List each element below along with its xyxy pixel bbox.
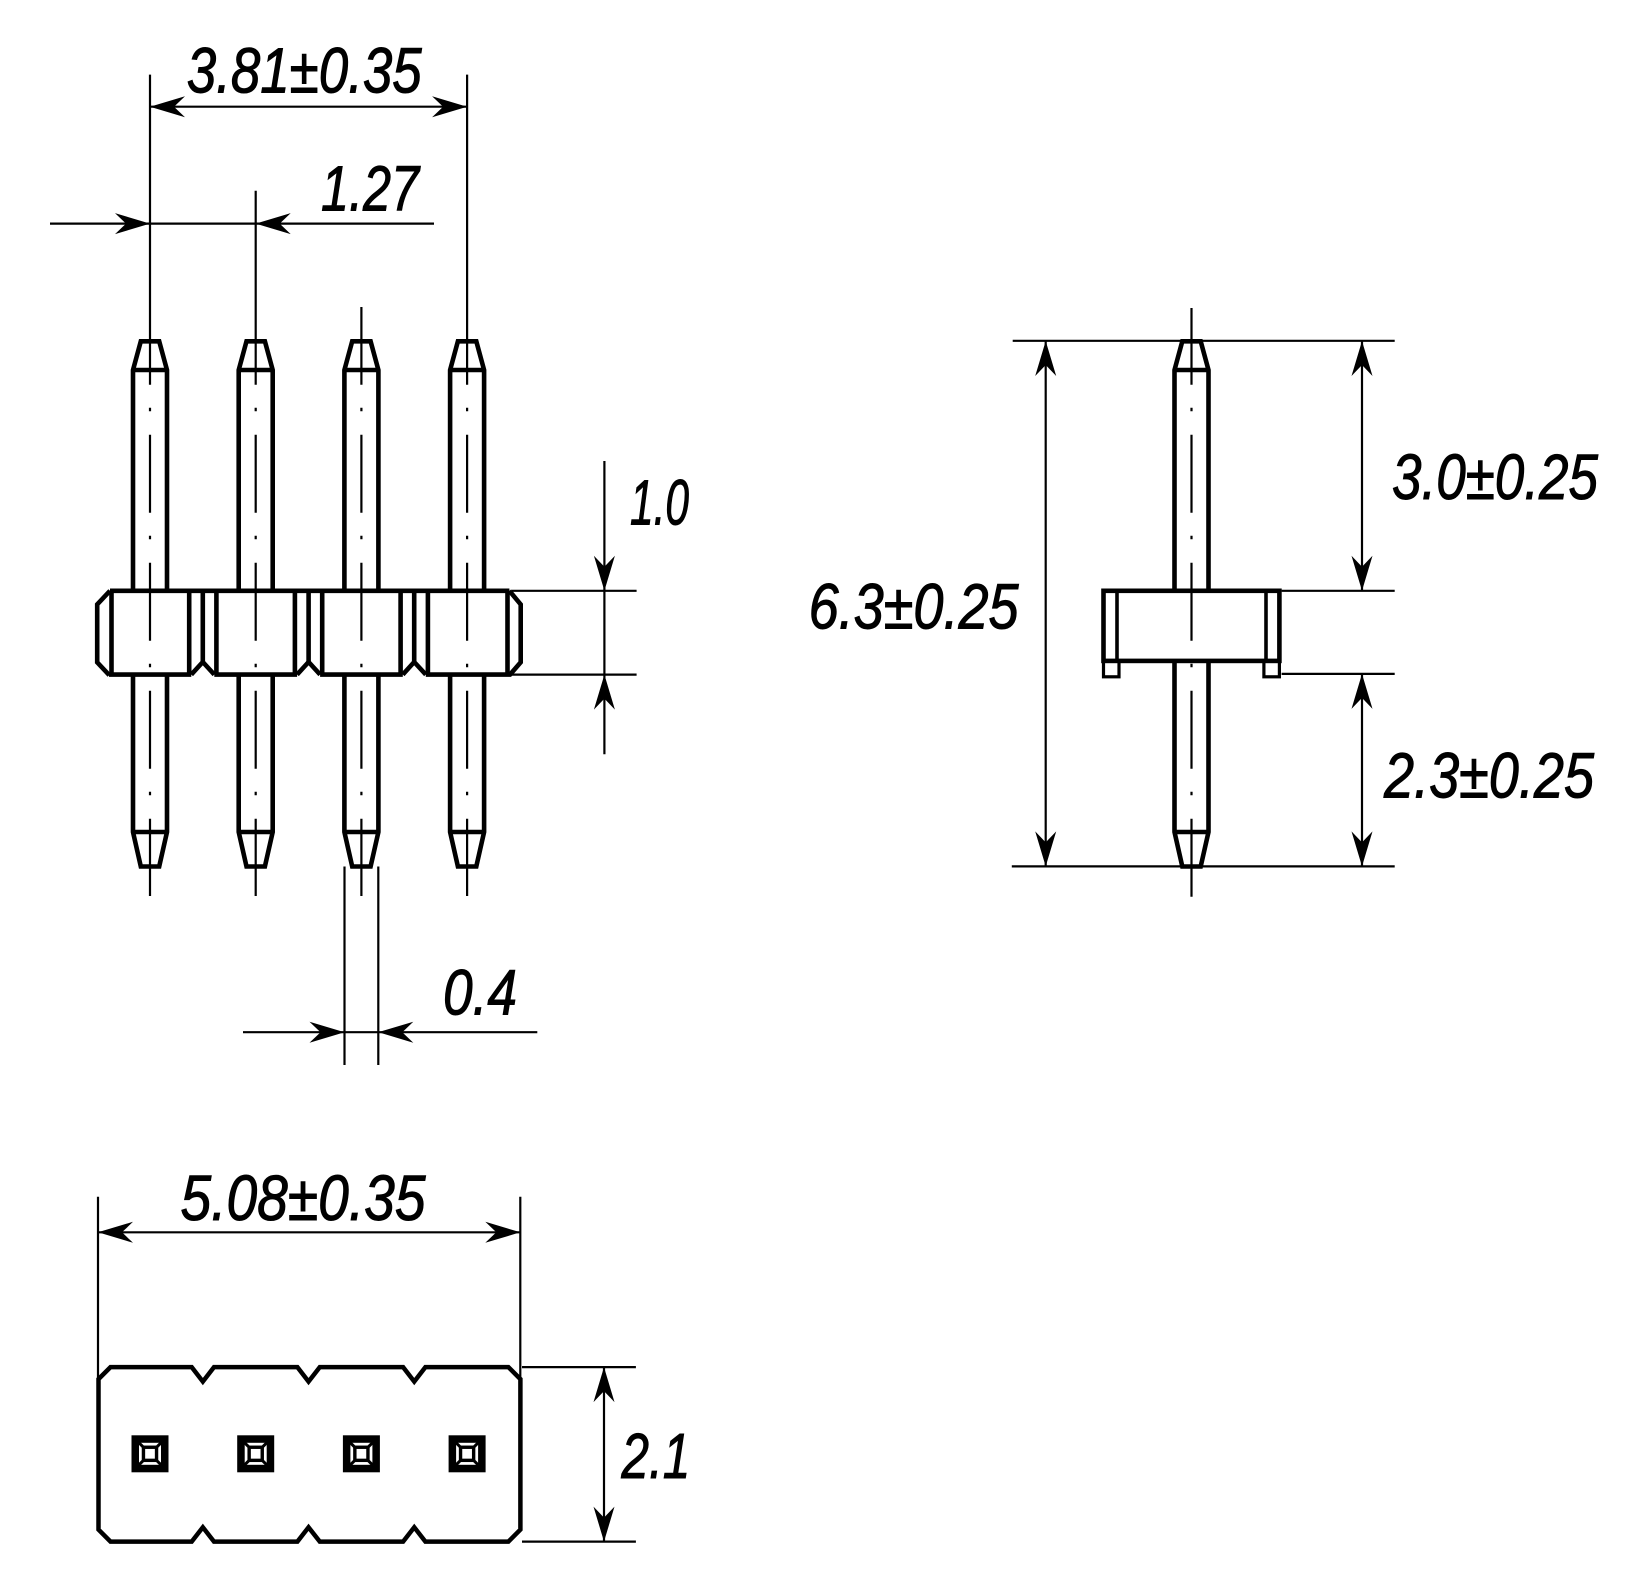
- dimension line 0.4: [243, 1031, 537, 1033]
- housing left wall inner edge: [1115, 591, 1119, 661]
- pin upper chamfer line (side view): [1175, 368, 1209, 373]
- svg-text:3.0±0.25: 3.0±0.25: [1392, 441, 1598, 513]
- dimension line 3.81±0.35: [150, 106, 467, 108]
- arrowhead pointing up: [594, 675, 615, 710]
- housing bottom edge segment: [426, 672, 511, 677]
- pin 2 lower chamfer line: [239, 830, 273, 835]
- arrowhead up: [594, 1367, 615, 1402]
- housing breakaway notch (front view): [403, 662, 426, 675]
- pin 4 lower chamfer line: [450, 830, 484, 835]
- arrowhead up: [1035, 341, 1056, 376]
- extension line overall bottom: [1012, 865, 1395, 867]
- svg-text:5.08±0.35: 5.08±0.35: [181, 1162, 426, 1234]
- housing outline (top view): [99, 1367, 521, 1542]
- extension lines 5.08: [97, 1197, 99, 1379]
- extension lines 2.1: [522, 1366, 636, 1368]
- arrowhead pointing right: [115, 213, 150, 234]
- pin 3 upper chamfer line: [344, 368, 378, 373]
- arrowhead up: [1352, 674, 1373, 709]
- housing bottom edge segment: [320, 672, 403, 677]
- housing left end chamfer: [97, 591, 110, 675]
- dimension line 1.27: [50, 223, 434, 225]
- arrowhead pointing left: [378, 1022, 413, 1043]
- housing left standoff foot: [1104, 661, 1120, 677]
- pin 1 centerline / extension line: [149, 75, 151, 384]
- housing junction chamfer edges: [293, 591, 298, 675]
- pin 4 square cross-section (top view): [452, 1439, 482, 1469]
- svg-text:1.0: 1.0: [630, 467, 689, 539]
- pin 2 upper body (front view): [239, 341, 273, 591]
- pin 1 lower body (front view): [133, 675, 167, 867]
- housing junction chamfer edges: [398, 591, 403, 675]
- dimension line 6.3±0.25: [1045, 341, 1047, 866]
- pin 1 upper body (front view): [133, 341, 167, 591]
- dimension line 1.0: [603, 461, 605, 754]
- housing right wall inner edge: [1264, 591, 1268, 661]
- housing left end inner edge: [109, 591, 114, 675]
- svg-text:3.81±0.35: 3.81±0.35: [187, 35, 422, 107]
- housing breakaway notch (front view): [297, 662, 320, 675]
- extension line housing top (side view): [1282, 590, 1395, 592]
- pin centerline (side view): [1190, 308, 1192, 384]
- housing junction chamfer edges: [187, 591, 192, 675]
- pin 2 square cross-section (top view): [241, 1439, 271, 1469]
- arrowhead down: [1352, 831, 1373, 866]
- arrowhead pointing left: [256, 213, 291, 234]
- dimension line 2.1: [603, 1367, 605, 1542]
- svg-text:0.4: 0.4: [443, 956, 517, 1028]
- housing junction parting line: [412, 591, 417, 662]
- pin 4 lower body (front view): [450, 675, 484, 867]
- arrowhead left: [150, 96, 185, 117]
- pin 3 centerline / extension line: [360, 307, 362, 384]
- housing junction parting line: [201, 591, 206, 662]
- svg-text:2.3±0.25: 2.3±0.25: [1383, 740, 1594, 812]
- extension line housing bottom (right): [512, 673, 637, 675]
- dimension line 5.08±0.35: [98, 1231, 520, 1233]
- pin 2 centerline / extension line: [255, 191, 257, 384]
- extension lines pin 3 width: [343, 867, 345, 1066]
- pin 1 lower chamfer line: [133, 830, 167, 835]
- arrowhead right: [432, 96, 467, 117]
- arrowhead left: [98, 1222, 133, 1243]
- pin 2 upper chamfer line: [239, 368, 273, 373]
- extension line housing top (right): [512, 590, 637, 592]
- pin 1 upper chamfer line: [133, 368, 167, 373]
- pin 1 square cross-section (top view): [135, 1439, 165, 1469]
- arrowhead up: [1352, 341, 1373, 376]
- arrowhead down: [1352, 556, 1373, 591]
- pin lower chamfer line (side view): [1175, 830, 1209, 835]
- pin lower body (side view): [1175, 661, 1209, 867]
- arrowhead down: [594, 1507, 615, 1542]
- pin 3 lower chamfer line: [344, 830, 378, 835]
- dimension line 3.0±0.25: [1361, 341, 1363, 591]
- pin 3 upper body (front view): [344, 341, 378, 591]
- arrowhead down: [1035, 831, 1056, 866]
- arrowhead right: [485, 1222, 520, 1243]
- housing right end inner edge: [505, 591, 510, 675]
- housing bottom edge segment: [109, 672, 191, 677]
- arrowhead pointing down: [594, 556, 615, 591]
- svg-text:1.27: 1.27: [321, 152, 421, 224]
- dimension line 2.3±0.25: [1361, 674, 1363, 867]
- pin 4 upper chamfer line: [450, 368, 484, 373]
- arrowhead pointing right: [310, 1022, 345, 1043]
- extension line overall top: [1013, 340, 1395, 342]
- pin 4 upper body (front view): [450, 341, 484, 591]
- pin 4 centerline / extension line: [466, 75, 468, 384]
- housing right standoff foot: [1264, 661, 1280, 677]
- housing right end chamfer: [509, 591, 520, 675]
- housing breakaway notch (front view): [191, 662, 214, 675]
- housing bottom edge segment: [214, 672, 297, 677]
- extension line housing bottom (side view): [1282, 673, 1395, 675]
- svg-text:6.3±0.25: 6.3±0.25: [809, 571, 1019, 643]
- pin upper body (side view): [1175, 341, 1209, 591]
- pin 3 square cross-section (top view): [347, 1439, 377, 1469]
- housing top edge (front view): [110, 588, 509, 593]
- pin 3 lower body (front view): [344, 675, 378, 867]
- housing body (side view section): [1104, 591, 1280, 661]
- housing junction parting line: [306, 591, 311, 662]
- pin 2 lower body (front view): [239, 675, 273, 867]
- svg-text:2.1: 2.1: [621, 1420, 691, 1492]
